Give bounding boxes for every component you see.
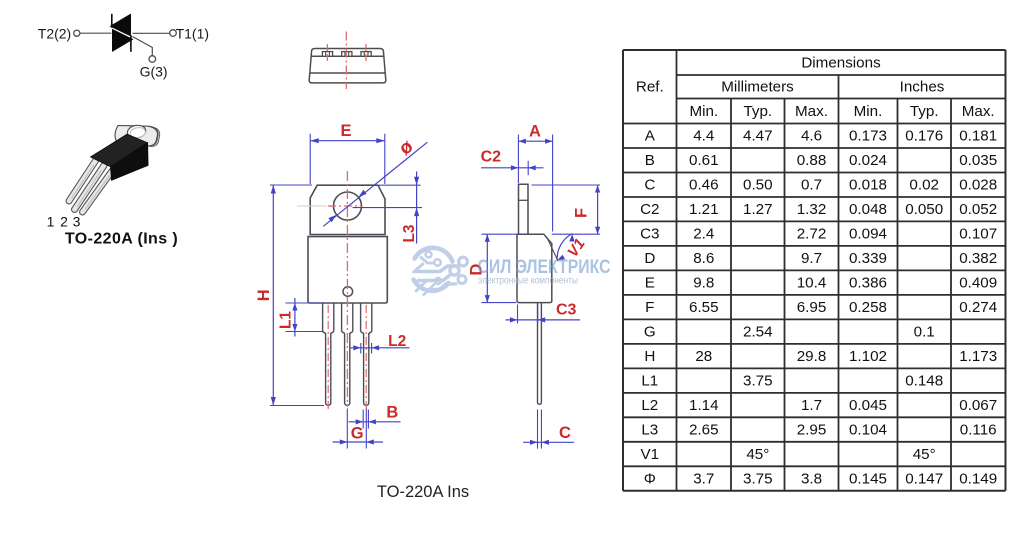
front view package outline	[297, 171, 387, 410]
svg-text:Min.: Min.	[854, 103, 883, 120]
svg-text:Dimensions: Dimensions	[801, 55, 881, 72]
svg-text:0.258: 0.258	[849, 299, 887, 316]
svg-text:TO-220A Ins: TO-220A Ins	[377, 483, 469, 501]
terminal T1 circle	[170, 30, 177, 37]
svg-text:2.4: 2.4	[693, 226, 714, 243]
svg-text:Min.: Min.	[689, 103, 718, 120]
front view lead 2 shoulder	[342, 303, 353, 332]
svg-text:2.72: 2.72	[797, 226, 827, 243]
side view package outline	[517, 184, 558, 404]
svg-text:0.048: 0.048	[849, 201, 887, 218]
watermark logo	[414, 248, 468, 295]
front view lead 3 shoulder	[361, 303, 372, 332]
svg-text:0.173: 0.173	[849, 128, 887, 145]
svg-text:0.61: 0.61	[689, 152, 719, 169]
svg-text:C3: C3	[640, 226, 659, 243]
svg-text:C2: C2	[481, 149, 502, 166]
molded body side face	[111, 143, 149, 181]
svg-text:Inches: Inches	[900, 79, 945, 96]
svg-text:G(3): G(3)	[140, 64, 168, 80]
dimension L2	[350, 333, 410, 354]
svg-text:2.54: 2.54	[743, 324, 773, 341]
svg-text:3.7: 3.7	[693, 471, 714, 488]
svg-text:TO-220A (Ins ): TO-220A (Ins )	[65, 231, 178, 248]
svg-text:L2: L2	[388, 333, 406, 350]
dimension L3	[353, 172, 423, 244]
front view body	[308, 237, 387, 303]
svg-text:0.7: 0.7	[801, 177, 822, 194]
triac upper triangle	[110, 14, 132, 37]
front view mounting hole	[334, 192, 362, 220]
front view lead 1 narrow	[323, 332, 334, 406]
svg-text:0.339: 0.339	[849, 250, 887, 267]
lead 1	[69, 160, 96, 201]
lead1 centerline	[327, 305, 329, 410]
dimension Phi hole diameter	[323, 136, 427, 227]
svg-text:0.181: 0.181	[959, 128, 997, 145]
svg-text:B: B	[645, 152, 655, 169]
top view lead stub 2	[342, 52, 352, 57]
metal tab with hole	[115, 126, 158, 147]
svg-text:Typ.: Typ.	[743, 103, 772, 120]
svg-text:A: A	[645, 128, 656, 145]
gate wire	[133, 37, 153, 56]
lead3 centerline	[365, 305, 367, 410]
svg-text:0.067: 0.067	[959, 397, 997, 414]
svg-text:4.4: 4.4	[693, 128, 714, 145]
svg-text:V1: V1	[641, 446, 660, 463]
svg-text:2.65: 2.65	[689, 422, 719, 439]
dimensions table	[623, 50, 1006, 491]
top view lead stub 3	[361, 52, 371, 57]
dimension B	[349, 403, 401, 428]
svg-text:Millimeters: Millimeters	[721, 79, 794, 96]
svg-text:0.382: 0.382	[959, 250, 997, 267]
svg-text:A: A	[529, 123, 541, 141]
top view stub centerline left	[326, 44, 328, 61]
svg-text:2.95: 2.95	[797, 422, 827, 439]
top view stub centerline right	[365, 44, 367, 61]
top view lead stub 1	[322, 52, 332, 57]
svg-text:L3: L3	[641, 422, 658, 439]
svg-text:D: D	[644, 250, 655, 267]
terminal T2 circle	[74, 30, 80, 36]
front view lead 2 narrow	[342, 332, 353, 406]
top view centerline	[345, 32, 347, 90]
svg-text:C3: C3	[556, 302, 577, 319]
3D package picture TO-220	[47, 124, 178, 247]
svg-text:0.1: 0.1	[914, 324, 935, 341]
dimension L1	[277, 298, 322, 337]
svg-text:1: 1	[47, 214, 55, 230]
svg-text:0.274: 0.274	[959, 299, 997, 316]
front view vertical centerline	[346, 171, 348, 407]
table grid	[623, 49, 1006, 51]
svg-text:0.050: 0.050	[905, 201, 943, 218]
top view lower line	[310, 72, 385, 74]
svg-text:C: C	[559, 424, 571, 442]
dimension V1 angle	[557, 234, 589, 261]
svg-text:1.14: 1.14	[689, 397, 719, 414]
svg-text:3.75: 3.75	[743, 471, 773, 488]
dimension G	[333, 409, 384, 449]
svg-text:0.035: 0.035	[959, 152, 997, 169]
triac top bar	[111, 14, 113, 28]
svg-text:28: 28	[695, 348, 712, 365]
svg-text:Max.: Max.	[962, 103, 995, 120]
svg-text:0.147: 0.147	[905, 471, 943, 488]
terminal G circle	[149, 56, 156, 63]
svg-text:F: F	[645, 299, 654, 316]
wire T2 to triac	[80, 32, 112, 34]
svg-text:1.21: 1.21	[689, 201, 719, 218]
svg-text:G: G	[351, 425, 364, 443]
svg-text:C: C	[644, 177, 655, 194]
svg-text:E: E	[340, 122, 351, 140]
svg-text:B: B	[386, 403, 398, 421]
front view small hole	[343, 287, 353, 297]
svg-text:2: 2	[60, 214, 68, 230]
top view outline	[309, 32, 386, 90]
dimension H	[255, 185, 324, 406]
svg-text:9.7: 9.7	[801, 250, 822, 267]
side view body	[517, 234, 552, 302]
svg-text:G: G	[644, 324, 656, 341]
dimension C3	[506, 302, 581, 324]
svg-text:0.028: 0.028	[959, 177, 997, 194]
svg-text:1.7: 1.7	[801, 397, 822, 414]
svg-text:C2: C2	[640, 201, 659, 218]
svg-text:45°: 45°	[913, 446, 936, 463]
triac lower triangle	[112, 29, 134, 52]
dimension D	[468, 234, 518, 302]
dimension F	[532, 185, 601, 234]
svg-text:6.55: 6.55	[689, 299, 719, 316]
svg-text:8.6: 8.6	[693, 250, 714, 267]
wire triac to T1	[133, 32, 170, 34]
svg-text:0.88: 0.88	[797, 152, 827, 169]
svg-text:F: F	[572, 208, 590, 218]
svg-text:0.176: 0.176	[905, 128, 943, 145]
svg-text:0.02: 0.02	[909, 177, 939, 194]
svg-text:Φ: Φ	[644, 471, 656, 488]
svg-text:3: 3	[73, 214, 81, 230]
svg-text:L1: L1	[641, 373, 658, 390]
svg-text:Max.: Max.	[795, 103, 828, 120]
svg-text:0.409: 0.409	[959, 275, 997, 292]
svg-text:0.145: 0.145	[849, 471, 887, 488]
front view tab with chamfers	[310, 185, 385, 234]
dimension C	[523, 410, 574, 449]
svg-text:H: H	[644, 348, 655, 365]
svg-text:0.50: 0.50	[743, 177, 773, 194]
side view lead	[538, 303, 542, 405]
hole horizontal centerline	[328, 205, 363, 207]
svg-text:0.386: 0.386	[849, 275, 887, 292]
front view lead 3 narrow	[361, 332, 372, 406]
lead 2	[75, 166, 105, 210]
svg-text:6.95: 6.95	[797, 299, 827, 316]
triac bottom bar	[130, 35, 132, 52]
side view chamfer extension	[547, 237, 559, 262]
tab hole	[127, 124, 147, 139]
svg-text:10.4: 10.4	[797, 275, 827, 292]
svg-text:4.6: 4.6	[801, 128, 822, 145]
svg-text:3.75: 3.75	[743, 373, 773, 390]
svg-text:0.116: 0.116	[960, 422, 997, 439]
svg-text:E: E	[645, 275, 655, 292]
svg-text:T2(2): T2(2)	[38, 26, 71, 42]
svg-text:0.104: 0.104	[849, 422, 887, 439]
lead 3	[83, 171, 113, 212]
svg-text:Ref.: Ref.	[636, 79, 664, 96]
svg-text:Typ.: Typ.	[910, 103, 939, 120]
svg-text:45°: 45°	[746, 446, 769, 463]
svg-text:1.102: 1.102	[849, 348, 887, 365]
svg-text:3.8: 3.8	[801, 471, 822, 488]
svg-text:L3: L3	[401, 224, 418, 242]
svg-text:0.024: 0.024	[849, 152, 887, 169]
svg-text:0.018: 0.018	[849, 177, 887, 194]
svg-text:0.052: 0.052	[959, 201, 997, 218]
molded body top face	[91, 134, 148, 167]
svg-text:29.8: 29.8	[797, 348, 827, 365]
svg-text:4.47: 4.47	[743, 128, 773, 145]
top view upper line	[311, 55, 384, 57]
svg-text:L1: L1	[277, 311, 294, 329]
svg-text:9.8: 9.8	[693, 275, 714, 292]
svg-text:0.46: 0.46	[689, 177, 719, 194]
svg-text:0.045: 0.045	[849, 397, 887, 414]
dimension C2	[481, 149, 544, 176]
svg-text:0.149: 0.149	[959, 471, 997, 488]
dimension E	[310, 122, 385, 184]
svg-text:0.107: 0.107	[959, 226, 997, 243]
svg-text:1.173: 1.173	[959, 348, 997, 365]
svg-text:0.148: 0.148	[905, 373, 943, 390]
svg-text:L2: L2	[641, 397, 658, 414]
svg-text:1.27: 1.27	[743, 201, 773, 218]
svg-text:T1(1): T1(1)	[176, 26, 209, 42]
svg-text:1.32: 1.32	[797, 201, 827, 218]
svg-text:0.094: 0.094	[849, 226, 887, 243]
svg-text:электронные компоненты: электронные компоненты	[478, 276, 578, 287]
svg-text:H: H	[255, 289, 273, 301]
side view tab strip	[519, 184, 529, 234]
faint centerline stub left of tab	[297, 205, 327, 207]
front view lead 1 shoulder	[323, 303, 334, 332]
dimension A	[518, 123, 552, 232]
triac symbol U1	[38, 14, 209, 80]
